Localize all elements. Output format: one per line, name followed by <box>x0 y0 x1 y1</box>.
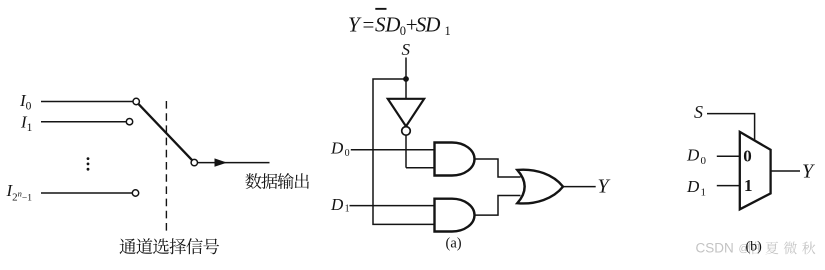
svg-text:D: D <box>686 177 700 196</box>
svg-text:0: 0 <box>701 155 707 167</box>
svg-text:Y: Y <box>802 160 815 182</box>
svg-text:1: 1 <box>701 186 707 198</box>
svg-text:D: D <box>686 145 700 164</box>
svg-text:Y: Y <box>598 176 611 198</box>
svg-text:D: D <box>330 138 344 157</box>
svg-text:D: D <box>330 195 344 214</box>
svg-text:D: D <box>424 13 440 37</box>
svg-text:S: S <box>402 40 411 59</box>
svg-text:0: 0 <box>345 148 350 159</box>
svg-text:0: 0 <box>743 147 752 166</box>
svg-text:=: = <box>363 13 375 37</box>
svg-text:D: D <box>384 13 400 37</box>
svg-text:1: 1 <box>445 24 451 38</box>
svg-text:S: S <box>694 102 703 122</box>
svg-text:CSDN: CSDN <box>696 240 734 255</box>
svg-text:(b): (b) <box>746 240 763 255</box>
svg-text:(a): (a) <box>446 236 462 252</box>
svg-text:1: 1 <box>744 176 753 195</box>
svg-text:1: 1 <box>345 203 350 214</box>
